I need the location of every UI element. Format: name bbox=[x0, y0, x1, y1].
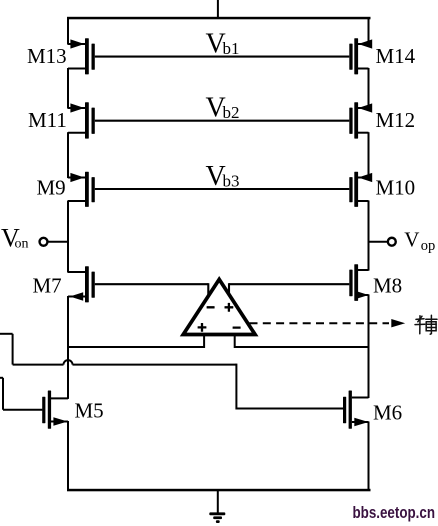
svg-text:M12: M12 bbox=[376, 108, 416, 132]
svg-text:M10: M10 bbox=[376, 176, 416, 200]
svg-text:M13: M13 bbox=[27, 44, 67, 68]
svg-text:M11: M11 bbox=[28, 108, 67, 132]
svg-text:b1: b1 bbox=[223, 39, 240, 58]
svg-text:M5: M5 bbox=[75, 399, 104, 423]
svg-text:b3: b3 bbox=[223, 171, 240, 190]
svg-text:bbs.eetop.cn: bbs.eetop.cn bbox=[353, 504, 436, 522]
svg-text:V: V bbox=[404, 228, 419, 252]
svg-text:M9: M9 bbox=[37, 176, 66, 200]
svg-text:op: op bbox=[421, 238, 436, 254]
svg-text:M6: M6 bbox=[373, 400, 402, 424]
svg-text:on: on bbox=[15, 236, 29, 251]
svg-text:M7: M7 bbox=[33, 273, 62, 297]
svg-text:M14: M14 bbox=[376, 44, 416, 68]
svg-text:M8: M8 bbox=[373, 274, 402, 298]
svg-text:b2: b2 bbox=[223, 103, 240, 122]
